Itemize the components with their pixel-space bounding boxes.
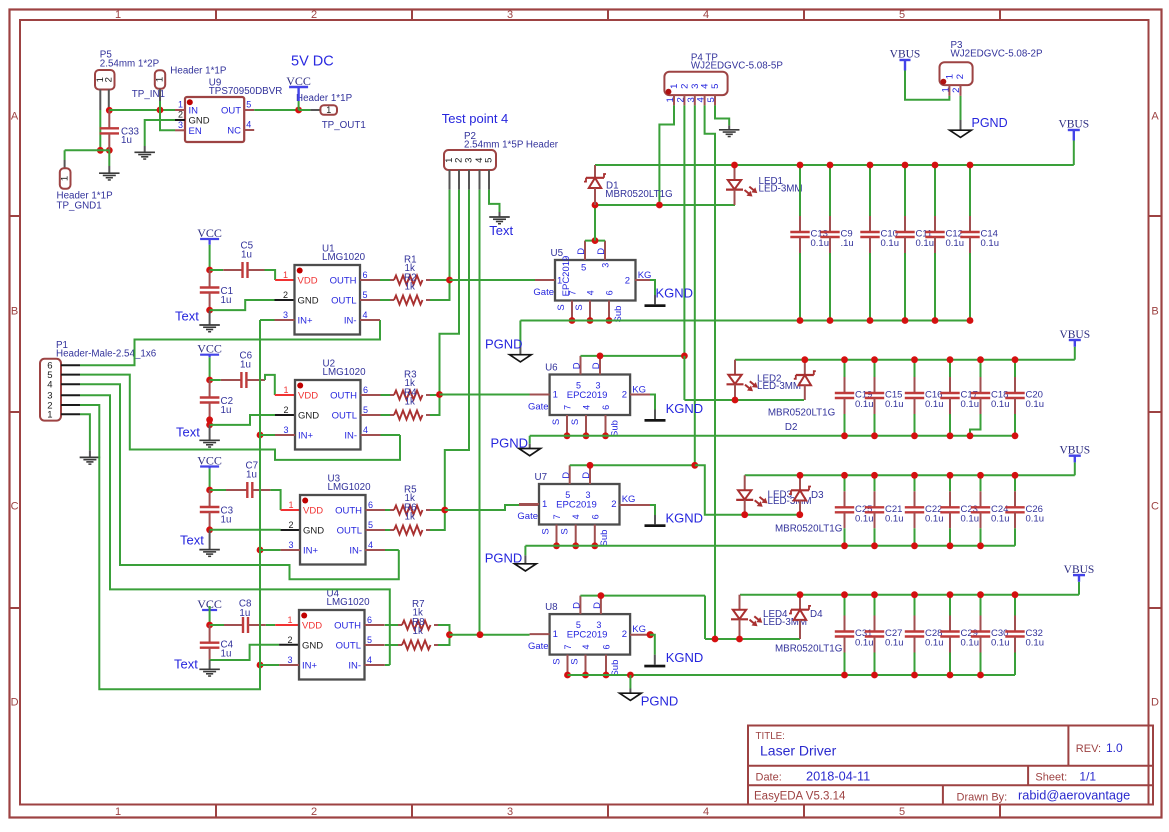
- svg-text:WJ2EDGVC-5.08-2P: WJ2EDGVC-5.08-2P: [951, 48, 1043, 59]
- svg-text:5: 5: [899, 9, 905, 21]
- svg-text:OUTH: OUTH: [335, 505, 362, 516]
- svg-text:2: 2: [311, 9, 317, 21]
- svg-text:KG: KG: [622, 494, 636, 505]
- svg-text:PGND: PGND: [485, 336, 523, 351]
- svg-text:S: S: [541, 528, 552, 534]
- svg-text:EasyEDA V5.3.14: EasyEDA V5.3.14: [754, 791, 846, 803]
- svg-text:2: 2: [611, 499, 616, 510]
- svg-text:2.54mm 1*5P Header: 2.54mm 1*5P Header: [464, 139, 559, 150]
- svg-text:4: 4: [47, 380, 52, 391]
- svg-text:OUTL: OUTL: [332, 410, 357, 421]
- svg-text:0.1u: 0.1u: [946, 238, 965, 249]
- svg-text:5: 5: [710, 84, 721, 89]
- svg-text:2: 2: [283, 290, 288, 300]
- svg-text:4: 4: [363, 310, 368, 320]
- svg-text:EPC2019: EPC2019: [567, 390, 608, 401]
- svg-text:1: 1: [178, 100, 183, 110]
- svg-text:2: 2: [625, 276, 630, 287]
- svg-text:.1u: .1u: [841, 238, 854, 249]
- svg-text:3: 3: [283, 310, 288, 320]
- svg-text:0.1u: 0.1u: [991, 638, 1010, 649]
- svg-text:4: 4: [582, 405, 592, 410]
- svg-text:D: D: [11, 697, 19, 709]
- svg-text:KGND: KGND: [666, 511, 704, 526]
- svg-text:5: 5: [363, 290, 368, 300]
- svg-text:1/1: 1/1: [1079, 770, 1096, 784]
- svg-text:Text: Text: [489, 223, 513, 238]
- svg-text:3: 3: [178, 120, 183, 130]
- svg-text:S: S: [570, 658, 581, 664]
- svg-text:Gate: Gate: [528, 402, 549, 413]
- svg-text:GND: GND: [298, 410, 319, 421]
- svg-text:MBR0520LT1G: MBR0520LT1G: [775, 524, 842, 535]
- svg-text:KGND: KGND: [656, 285, 694, 300]
- svg-text:5: 5: [565, 490, 570, 500]
- svg-text:GND: GND: [303, 525, 324, 536]
- svg-text:1: 1: [115, 9, 121, 21]
- svg-text:0.1u: 0.1u: [1026, 638, 1045, 649]
- svg-text:4: 4: [246, 120, 251, 130]
- svg-text:OUTH: OUTH: [330, 275, 357, 286]
- svg-text:D: D: [1151, 697, 1159, 709]
- svg-text:4: 4: [703, 9, 709, 21]
- svg-text:B: B: [11, 306, 18, 318]
- svg-text:LMG1020: LMG1020: [327, 597, 371, 608]
- svg-text:6: 6: [590, 514, 600, 519]
- svg-text:S: S: [552, 658, 563, 664]
- svg-text:EPC2019: EPC2019: [561, 256, 572, 297]
- svg-text:1: 1: [944, 74, 955, 79]
- svg-text:0.1u: 0.1u: [925, 638, 944, 649]
- svg-text:6: 6: [368, 500, 373, 510]
- svg-text:5: 5: [246, 100, 251, 110]
- svg-text:2.54mm 1*2P: 2.54mm 1*2P: [100, 59, 160, 70]
- svg-text:2: 2: [287, 635, 292, 645]
- svg-text:0.1u: 0.1u: [885, 513, 904, 524]
- svg-text:1: 1: [326, 105, 331, 115]
- svg-text:1: 1: [60, 176, 71, 181]
- svg-text:LMG1020: LMG1020: [328, 482, 372, 493]
- svg-text:0.1u: 0.1u: [981, 238, 1000, 249]
- svg-text:2: 2: [103, 77, 114, 82]
- svg-text:1k: 1k: [405, 281, 415, 292]
- svg-text:IN+: IN+: [303, 545, 319, 556]
- svg-text:0.1u: 0.1u: [916, 238, 935, 249]
- svg-text:4: 4: [700, 84, 711, 89]
- svg-text:OUTL: OUTL: [336, 640, 361, 651]
- svg-text:2: 2: [283, 405, 288, 415]
- svg-text:2018-04-11: 2018-04-11: [806, 769, 870, 784]
- svg-text:1: 1: [283, 270, 288, 280]
- svg-text:KGND: KGND: [666, 401, 704, 416]
- svg-text:6: 6: [363, 385, 368, 395]
- svg-text:2: 2: [622, 629, 627, 640]
- svg-text:VBUS: VBUS: [1064, 564, 1095, 576]
- svg-text:VDD: VDD: [298, 275, 318, 286]
- svg-text:VCC: VCC: [197, 453, 222, 467]
- svg-text:MBR0520LT1G: MBR0520LT1G: [768, 407, 835, 418]
- svg-text:0.1u: 0.1u: [855, 399, 874, 410]
- svg-text:1u: 1u: [241, 250, 252, 261]
- svg-text:2: 2: [679, 84, 690, 89]
- svg-text:4: 4: [571, 514, 581, 519]
- svg-text:Header-Male-2.54_1x6: Header-Male-2.54_1x6: [56, 348, 157, 359]
- svg-text:1: 1: [288, 500, 293, 510]
- svg-text:3: 3: [283, 425, 288, 435]
- svg-text:VBUS: VBUS: [1059, 329, 1090, 341]
- svg-text:6: 6: [363, 270, 368, 280]
- svg-text:5V DC: 5V DC: [291, 54, 334, 70]
- svg-text:Gate: Gate: [533, 287, 554, 298]
- svg-text:D4: D4: [810, 609, 823, 620]
- svg-text:VCC: VCC: [197, 226, 222, 240]
- svg-text:5: 5: [581, 262, 586, 273]
- svg-text:6: 6: [602, 644, 612, 649]
- svg-text:1: 1: [287, 615, 292, 625]
- svg-text:1u: 1u: [121, 135, 132, 146]
- svg-text:IN-: IN-: [344, 315, 357, 326]
- svg-text:4: 4: [368, 540, 373, 550]
- svg-text:MBR0520LT1G: MBR0520LT1G: [605, 189, 672, 200]
- svg-text:5: 5: [899, 806, 905, 818]
- svg-text:LED-3MM: LED-3MM: [757, 381, 801, 392]
- svg-text:3: 3: [507, 9, 513, 21]
- svg-text:NC: NC: [227, 126, 241, 137]
- svg-text:0.1u: 0.1u: [885, 638, 904, 649]
- svg-text:1u: 1u: [240, 360, 251, 371]
- svg-text:IN-: IN-: [349, 545, 362, 556]
- svg-text:1: 1: [155, 77, 166, 82]
- svg-text:5: 5: [576, 620, 581, 630]
- svg-text:A: A: [1151, 111, 1159, 123]
- svg-text:LED-3MM: LED-3MM: [759, 184, 803, 195]
- svg-text:1k: 1k: [405, 396, 415, 407]
- svg-text:1: 1: [542, 499, 547, 510]
- svg-text:1k: 1k: [405, 511, 415, 522]
- svg-text:EPC2019: EPC2019: [567, 629, 608, 640]
- svg-text:A: A: [11, 111, 19, 123]
- svg-text:VBUS: VBUS: [1058, 119, 1089, 131]
- svg-text:3: 3: [596, 620, 601, 630]
- svg-text:1k: 1k: [413, 626, 423, 637]
- svg-text:1: 1: [115, 806, 121, 818]
- svg-text:1u: 1u: [221, 648, 232, 659]
- svg-text:3: 3: [464, 158, 475, 163]
- svg-text:REV:: REV:: [1076, 743, 1101, 755]
- svg-text:OUTL: OUTL: [337, 525, 362, 536]
- svg-text:5: 5: [368, 520, 373, 530]
- svg-text:6: 6: [367, 615, 372, 625]
- svg-text:U6: U6: [545, 363, 558, 374]
- svg-text:7: 7: [563, 405, 573, 410]
- svg-text:D3: D3: [811, 490, 824, 501]
- svg-text:IN-: IN-: [344, 430, 357, 441]
- svg-text:VDD: VDD: [302, 620, 322, 631]
- svg-text:6: 6: [605, 290, 615, 295]
- svg-text:Text: Text: [175, 309, 199, 324]
- svg-text:IN+: IN+: [298, 315, 314, 326]
- svg-text:PGND: PGND: [972, 116, 1008, 130]
- svg-text:C: C: [11, 501, 19, 513]
- svg-text:Date:: Date:: [756, 771, 782, 783]
- svg-text:S: S: [551, 419, 562, 425]
- svg-text:3: 3: [601, 263, 611, 268]
- svg-text:7: 7: [563, 644, 573, 649]
- svg-text:WJ2EDGVC-5.08-5P: WJ2EDGVC-5.08-5P: [691, 61, 783, 72]
- svg-text:U8: U8: [545, 602, 558, 613]
- svg-text:Text: Text: [174, 656, 198, 671]
- svg-text:VBUS: VBUS: [1059, 445, 1090, 457]
- svg-text:1u: 1u: [246, 470, 257, 481]
- svg-text:OUTL: OUTL: [331, 295, 356, 306]
- svg-text:VCC: VCC: [286, 74, 311, 88]
- svg-text:IN+: IN+: [298, 430, 314, 441]
- svg-text:0.1u: 0.1u: [961, 638, 980, 649]
- svg-text:Text: Text: [176, 425, 200, 440]
- svg-text:1u: 1u: [221, 405, 232, 416]
- svg-text:7: 7: [568, 290, 578, 295]
- svg-text:0.1u: 0.1u: [885, 399, 904, 410]
- svg-text:S: S: [574, 304, 585, 310]
- svg-text:1: 1: [553, 389, 558, 400]
- svg-text:2: 2: [288, 520, 293, 530]
- svg-text:1: 1: [553, 629, 558, 640]
- svg-text:0.1u: 0.1u: [855, 638, 874, 649]
- svg-text:4: 4: [367, 655, 372, 665]
- svg-text:IN+: IN+: [302, 660, 318, 671]
- svg-text:TP_OUT1: TP_OUT1: [322, 120, 366, 131]
- svg-text:0.1u: 0.1u: [991, 513, 1010, 524]
- svg-text:Header 1*1P: Header 1*1P: [170, 66, 227, 77]
- svg-text:EN: EN: [189, 126, 202, 137]
- svg-text:OUTH: OUTH: [334, 620, 361, 631]
- svg-text:0.1u: 0.1u: [1026, 513, 1045, 524]
- svg-text:5: 5: [484, 158, 495, 163]
- svg-text:LMG1020: LMG1020: [322, 252, 366, 263]
- svg-text:Sub: Sub: [599, 530, 610, 547]
- svg-text:2: 2: [311, 806, 317, 818]
- svg-text:KGND: KGND: [666, 650, 704, 665]
- svg-text:GND: GND: [298, 295, 319, 306]
- svg-text:TPS70950DBVR: TPS70950DBVR: [209, 86, 283, 97]
- svg-text:VCC: VCC: [197, 342, 222, 356]
- svg-text:1: 1: [669, 84, 680, 89]
- svg-text:0.1u: 0.1u: [991, 399, 1010, 410]
- svg-text:Laser Driver: Laser Driver: [760, 742, 837, 758]
- svg-text:0.1u: 0.1u: [881, 238, 900, 249]
- svg-text:B: B: [1151, 306, 1158, 318]
- svg-text:S: S: [560, 528, 571, 534]
- svg-text:OUT: OUT: [221, 106, 241, 117]
- svg-text:Test point 4: Test point 4: [442, 111, 509, 126]
- svg-text:1u: 1u: [239, 608, 250, 619]
- svg-text:2: 2: [955, 74, 966, 79]
- svg-text:Gate: Gate: [528, 641, 549, 652]
- svg-text:PGND: PGND: [491, 435, 529, 450]
- svg-text:2: 2: [622, 389, 627, 400]
- svg-text:D2: D2: [785, 422, 798, 433]
- svg-text:3: 3: [288, 540, 293, 550]
- svg-text:0.1u: 0.1u: [925, 399, 944, 410]
- svg-text:0.1u: 0.1u: [1026, 399, 1045, 410]
- svg-text:rabid@aerovantage: rabid@aerovantage: [1018, 788, 1130, 803]
- svg-text:3: 3: [287, 655, 292, 665]
- svg-text:TITLE:: TITLE:: [756, 731, 785, 742]
- svg-text:0.1u: 0.1u: [925, 513, 944, 524]
- svg-text:MBR0520LT1G: MBR0520LT1G: [775, 643, 842, 654]
- svg-text:S: S: [570, 419, 581, 425]
- svg-text:Gate: Gate: [517, 511, 538, 522]
- svg-text:1u: 1u: [221, 295, 232, 306]
- svg-text:Text: Text: [180, 532, 204, 547]
- svg-text:LMG1020: LMG1020: [323, 367, 367, 378]
- svg-text:Header 1*1P: Header 1*1P: [296, 93, 353, 104]
- svg-text:TP_GND1: TP_GND1: [57, 200, 102, 211]
- svg-text:C: C: [1151, 501, 1159, 513]
- svg-text:5: 5: [367, 635, 372, 645]
- svg-text:Sub: Sub: [610, 420, 621, 437]
- svg-text:0.1u: 0.1u: [961, 399, 980, 410]
- svg-text:Sheet:: Sheet:: [1035, 771, 1067, 783]
- svg-text:IN-: IN-: [348, 660, 361, 671]
- svg-text:VBUS: VBUS: [890, 49, 921, 61]
- svg-text:1.0: 1.0: [1106, 741, 1123, 755]
- svg-text:1u: 1u: [221, 514, 232, 525]
- svg-text:KG: KG: [632, 624, 646, 635]
- svg-text:OUTH: OUTH: [330, 390, 357, 401]
- svg-text:4: 4: [586, 290, 596, 295]
- svg-text:U7: U7: [535, 472, 548, 483]
- svg-text:PGND: PGND: [641, 693, 679, 708]
- svg-text:4: 4: [703, 806, 709, 818]
- svg-text:3: 3: [585, 490, 590, 500]
- svg-text:7: 7: [552, 514, 562, 519]
- svg-text:0.1u: 0.1u: [961, 513, 980, 524]
- svg-text:3: 3: [507, 806, 513, 818]
- svg-text:1: 1: [47, 410, 52, 421]
- svg-text:4: 4: [363, 425, 368, 435]
- svg-text:0.1u: 0.1u: [811, 238, 830, 249]
- svg-text:GND: GND: [302, 640, 323, 651]
- svg-text:5: 5: [576, 381, 581, 391]
- svg-text:4: 4: [581, 644, 591, 649]
- svg-text:VDD: VDD: [303, 505, 323, 516]
- svg-text:EPC2019: EPC2019: [556, 499, 597, 510]
- svg-text:1: 1: [283, 385, 288, 395]
- svg-text:PGND: PGND: [485, 551, 523, 566]
- svg-text:6: 6: [601, 405, 611, 410]
- svg-text:0.1u: 0.1u: [855, 513, 874, 524]
- svg-text:2: 2: [178, 110, 183, 120]
- svg-text:S: S: [556, 304, 567, 310]
- svg-text:VDD: VDD: [298, 390, 318, 401]
- svg-text:Drawn By:: Drawn By:: [957, 791, 1008, 803]
- svg-text:5: 5: [363, 405, 368, 415]
- svg-text:3: 3: [595, 381, 600, 391]
